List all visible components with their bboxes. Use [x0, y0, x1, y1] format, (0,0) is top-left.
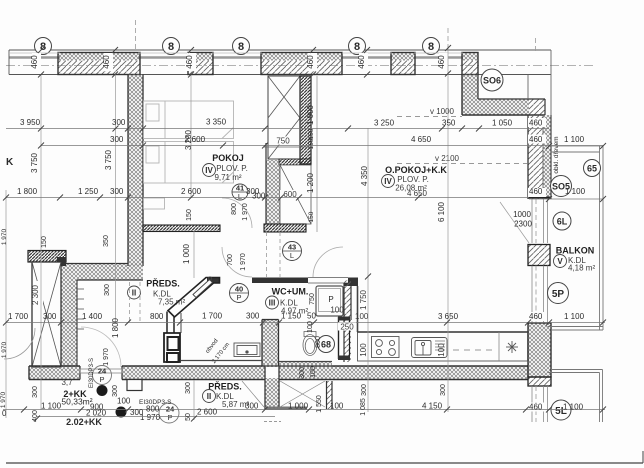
room label PREDS II 7.35: [128, 278, 186, 307]
wire top outer wall line: [9, 49, 551, 51]
wall pier P1: [58, 53, 140, 75]
svg-text:300: 300: [110, 135, 124, 144]
grid line C x191: [190, 75, 192, 199]
washer P box: [316, 286, 344, 316]
svg-text:BALKON: BALKON: [556, 246, 595, 256]
grid circle 8 a: [35, 38, 52, 55]
svg-text:L: L: [238, 192, 242, 201]
wire top inner wall line: [9, 74, 551, 76]
svg-text:8: 8: [354, 41, 360, 53]
room label O.POKOJ+K.K: [382, 165, 448, 198]
v1000 parapet dashed: [397, 107, 462, 117]
grid circle 8 e: [423, 38, 440, 55]
dash axis above left wall: [135, 20, 137, 50]
floor face line WC / thicker wall segment: [279, 362, 333, 367]
svg-text:1 970: 1 970: [1, 341, 8, 358]
svg-text:EI30DP3-S: EI30DP3-S: [139, 399, 172, 406]
room label WC+UM: [266, 287, 309, 316]
circle 40 P door WC: [230, 284, 249, 303]
svg-text:65: 65: [587, 164, 597, 174]
left window jamb: [8, 50, 10, 75]
hatched block right at kitchen: [528, 323, 551, 386]
svg-text:300: 300: [299, 367, 306, 379]
window strip right mid: [532, 266, 548, 324]
svg-text:750: 750: [309, 293, 316, 305]
svg-text:6L: 6L: [557, 217, 568, 227]
grid line B x115: [115, 75, 117, 324]
svg-text:2 600: 2 600: [197, 408, 218, 417]
svg-text:1 700: 1 700: [8, 312, 29, 321]
dimension 2300 shaft: [33, 281, 43, 309]
outer corner boundary right: [550, 50, 552, 152]
balcony slab diagonal: [500, 202, 529, 243]
svg-text:1 970: 1 970: [140, 413, 161, 422]
door leaf dot lower: [116, 407, 127, 418]
wall strip right of washer: [344, 280, 351, 362]
svg-text:4 650: 4 650: [411, 135, 432, 144]
balcony door SO5 opening: [532, 199, 548, 243]
v2100 lintel dashed: [397, 154, 527, 164]
left wall of POKOJ (crosshatch): [128, 75, 143, 267]
svg-text:v 2100: v 2100: [435, 154, 460, 163]
circle 65: [584, 160, 601, 177]
svg-text:4 650: 4 650: [407, 189, 428, 198]
svg-text:IV: IV: [384, 177, 392, 186]
dashed door projection PREDS: [130, 282, 141, 322]
svg-text:K: K: [6, 157, 14, 168]
svg-text:P: P: [328, 295, 333, 304]
svg-text:1 970: 1 970: [0, 391, 7, 408]
svg-text:8: 8: [428, 41, 434, 53]
svg-text:460: 460: [357, 55, 366, 69]
svg-text:460: 460: [529, 187, 543, 196]
wall pier P5 corner: [462, 53, 478, 75]
lower truss bay with diagonal: [280, 165, 311, 224]
svg-text:1 200: 1 200: [306, 172, 315, 193]
door arc neighbour left: [4, 328, 35, 359]
svg-text:300: 300: [361, 384, 368, 396]
svg-text:150: 150: [308, 138, 315, 149]
wall stub right of entrance: [327, 381, 333, 409]
svg-text:460: 460: [30, 55, 39, 69]
page corner tick right: [642, 451, 644, 463]
svg-text:1 550: 1 550: [316, 395, 323, 413]
circle 43 door O.POKOJ: [283, 242, 302, 261]
door arc entry hall: [81, 327, 121, 367]
truss column upper box: [268, 76, 300, 159]
svg-text:150: 150: [308, 128, 315, 139]
door leaf 40 on diagonal: [193, 277, 213, 298]
svg-text:IV: IV: [205, 166, 213, 175]
washbasin: [234, 343, 260, 357]
balcony 65 outline: [548, 146, 604, 330]
svg-text:P: P: [236, 293, 241, 302]
svg-text:II: II: [132, 289, 136, 298]
svg-text:460: 460: [529, 119, 543, 128]
door opening left (900 door) leaf: [80, 369, 122, 373]
svg-text:POKOJ: POKOJ: [212, 153, 244, 163]
door arc POKOJ: [222, 198, 252, 228]
kitchen counter: [358, 332, 528, 361]
partition bar bottom of truss column: [264, 224, 306, 232]
truss middle dark bar: [279, 159, 311, 165]
door arc WC top: [313, 247, 343, 277]
svg-text:150: 150: [41, 236, 48, 248]
window inner thin line: [9, 52, 463, 54]
svg-text:PŘEDS.: PŘEDS.: [208, 381, 242, 392]
kitchen side wall: [357, 286, 359, 332]
threshold dashes entrance: [264, 421, 281, 423]
dimension row y322: [6, 312, 605, 323]
svg-text:8: 8: [168, 41, 174, 53]
dimension row y197: [6, 187, 586, 201]
hatched block below SO5: [528, 245, 550, 266]
dash axis top right corner: [535, 38, 537, 52]
grid circle 8 b: [163, 38, 180, 55]
svg-text:100: 100: [330, 402, 344, 411]
svg-text:460: 460: [529, 135, 543, 144]
svg-text:1 050: 1 050: [492, 119, 513, 128]
dishwasher dashed: [453, 349, 495, 351]
svg-text:II: II: [207, 392, 211, 401]
svg-text:1 150: 1 150: [281, 312, 302, 321]
dimension row y128: [6, 118, 549, 129]
balcony 5L outline bottom right: [548, 370, 603, 423]
wall pier P4: [391, 53, 415, 75]
bed 2: [144, 142, 234, 184]
corner wall band above PREDS: [61, 264, 143, 281]
svg-text:800: 800: [150, 312, 164, 321]
wall pier P2: [188, 53, 213, 75]
svg-text:3 200: 3 200: [184, 129, 193, 150]
svg-text:8: 8: [238, 41, 244, 53]
svg-text:1 000: 1 000: [306, 104, 315, 125]
svg-text:1 000: 1 000: [288, 402, 309, 411]
sink: [412, 338, 448, 358]
dimension row y145: [41, 135, 603, 146]
svg-text:100: 100: [330, 306, 344, 315]
svg-text:460: 460: [102, 55, 111, 69]
grid circle 8 c: [233, 38, 250, 55]
door recess notch near 24P: [127, 380, 142, 391]
axis dash in SO5 opening: [535, 199, 537, 243]
svg-text:50: 50: [307, 312, 316, 321]
shaft boxes beside washbasin: [164, 333, 180, 362]
svg-text:1 400: 1 400: [82, 312, 103, 321]
svg-text:1 100: 1 100: [564, 135, 585, 144]
halo 750: [272, 137, 294, 145]
svg-text:2 300: 2 300: [31, 284, 40, 305]
dimension 460 labels on top wall: [30, 55, 446, 69]
svg-text:1 700: 1 700: [202, 312, 223, 321]
svg-text:150: 150: [186, 209, 193, 221]
grid line D x368: [367, 128, 369, 412]
vertical wall piece below diagonal: [167, 312, 174, 334]
svg-text:1 970: 1 970: [1, 228, 8, 245]
bottom page border line: [6, 462, 643, 464]
svg-text:2300: 2300: [514, 220, 532, 229]
svg-text:5P: 5P: [552, 289, 565, 300]
svg-text:460: 460: [437, 55, 446, 69]
right wall segment upper (obkl drevem): [528, 115, 551, 199]
circle SO5: [551, 176, 572, 197]
wardrobe small rect POKOJ: [144, 198, 165, 209]
svg-text:300: 300: [112, 385, 119, 397]
svg-text:1 800: 1 800: [111, 317, 120, 338]
grid line PREDS x194: [193, 231, 195, 278]
vertical texts left side: [30, 149, 192, 421]
halo 600: [280, 190, 300, 198]
wall line above shaft boxes: [180, 313, 182, 333]
svg-text:3,7: 3,7: [61, 378, 73, 387]
svg-text:68: 68: [321, 340, 331, 350]
svg-text:obkl. dřevem: obkl. dřevem: [553, 136, 560, 173]
svg-text:P: P: [99, 375, 104, 384]
svg-text:1 750: 1 750: [359, 289, 368, 310]
svg-text:800: 800: [315, 336, 322, 348]
corridor diagonals below: [242, 381, 325, 407]
circle 68: [318, 336, 335, 353]
svg-text:3 650: 3 650: [438, 312, 459, 321]
svg-text:P: P: [167, 413, 172, 422]
svg-text:WC+UM.: WC+UM.: [272, 287, 309, 297]
circle 6L: [553, 212, 571, 230]
svg-text:350: 350: [103, 235, 110, 247]
room label PREDS II 5.87: [203, 381, 250, 410]
dimension 750 inside truss: [264, 137, 311, 148]
svg-text:1 100: 1 100: [565, 187, 586, 196]
vertical texts POKOJ area: [182, 129, 249, 270]
grid line A x41: [40, 75, 42, 411]
svg-text:0: 0: [2, 409, 7, 418]
room label POKOJ: [203, 153, 248, 182]
circle 24 P upper door: [93, 366, 112, 385]
window strip right bottom: [532, 386, 548, 422]
svg-text:PLOV. P.: PLOV. P.: [216, 164, 248, 173]
svg-text:1 250: 1 250: [78, 187, 99, 196]
svg-text:3 350: 3 350: [206, 118, 227, 127]
svg-text:SO6: SO6: [483, 76, 501, 86]
grid line E x448: [447, 46, 449, 412]
svg-text:1 085: 1 085: [360, 398, 367, 416]
svg-text:50,33m²: 50,33m²: [61, 397, 92, 407]
dimension row y418: [37, 416, 275, 418]
svg-text:300: 300: [185, 382, 192, 394]
stove: [372, 337, 400, 358]
wall between UM and WC: [262, 320, 279, 367]
texts 1000 2300: [513, 210, 532, 229]
svg-text:800: 800: [231, 203, 238, 215]
left wall of PREDS (crosshatch strip): [61, 280, 77, 367]
circle 5P: [548, 283, 569, 304]
circle 24 P lower door: [159, 403, 179, 423]
dimension line vertical right of truss: [316, 76, 318, 232]
vertical texts O.POKOJ area: [299, 165, 447, 415]
svg-text:50: 50: [185, 413, 192, 421]
crosshatch strip mid column: [266, 143, 280, 224]
svg-text:150: 150: [308, 211, 315, 222]
svg-text:460: 460: [306, 55, 315, 69]
svg-text:1 970: 1 970: [242, 203, 249, 221]
svg-text:1 100: 1 100: [41, 402, 62, 411]
svg-text:300: 300: [110, 187, 124, 196]
dash axis above grid d: [447, 28, 449, 49]
svg-text:300: 300: [245, 402, 259, 411]
wall axis dash-dot line: [6, 65, 593, 67]
svg-text:3 950: 3 950: [20, 118, 41, 127]
dim texts truss column: [306, 104, 315, 222]
dark hatched narrow bar right of truss: [300, 76, 311, 164]
svg-text:3 750: 3 750: [104, 149, 113, 170]
SO6 window corner wall vertical part: [462, 75, 478, 116]
svg-text:EI30DP3-S: EI30DP3-S: [89, 358, 95, 388]
svg-text:L: L: [290, 251, 294, 260]
svg-text:300: 300: [112, 118, 126, 127]
WC top wall opening lines: [308, 278, 348, 284]
svg-text:460: 460: [185, 55, 194, 69]
svg-text:100: 100: [359, 343, 368, 357]
svg-text:V: V: [557, 257, 563, 266]
svg-text:250: 250: [340, 323, 354, 332]
svg-text:1 970: 1 970: [103, 348, 110, 366]
text 250: [338, 323, 356, 331]
svg-text:700: 700: [227, 254, 234, 266]
door leaf dot upper: [97, 385, 108, 396]
svg-text:750: 750: [276, 137, 290, 146]
svg-text:4,18 m²: 4,18 m²: [568, 264, 595, 273]
dashed door projection WC left: [267, 232, 281, 277]
svg-text:2.02+KK: 2.02+KK: [66, 417, 102, 427]
bed 1: [144, 101, 234, 139]
svg-text:6 100: 6 100: [437, 201, 446, 222]
svg-text:100: 100: [355, 312, 369, 321]
window glazing band top-left: [9, 56, 463, 59]
svg-text:300: 300: [43, 312, 57, 321]
svg-text:100: 100: [307, 321, 314, 333]
svg-text:8: 8: [40, 41, 46, 53]
SO6 window corner wall horizontal part: [462, 99, 545, 115]
svg-text:v 1000: v 1000: [430, 107, 455, 116]
svg-text:9,71 m²: 9,71 m²: [214, 173, 241, 182]
partition bar POKOJ/PREDS: [143, 225, 220, 232]
svg-text:300: 300: [440, 384, 447, 396]
diagonal hatched beam left: [28, 251, 66, 267]
svg-text:1 970: 1 970: [240, 253, 247, 271]
room label BALKON: [554, 246, 596, 273]
door arc PREDS below bar: [222, 247, 252, 277]
svg-text:O.POKOJ+K.K: O.POKOJ+K.K: [385, 165, 447, 175]
apartment label 2+KK: [61, 378, 92, 407]
svg-text:100: 100: [117, 397, 131, 406]
halos for right wall 460 labels: [528, 118, 546, 412]
ladder ticks on PREDS wall: [77, 289, 84, 329]
toilet: [303, 332, 317, 356]
circle SO6: [481, 69, 503, 91]
entrance door recess column: [265, 367, 307, 411]
svg-text:300: 300: [32, 386, 39, 398]
dim line balcony y199: [529, 198, 603, 200]
obvod note rotated: [205, 338, 231, 365]
diagonal entry wall: [168, 278, 220, 318]
boiler star symbol: [506, 341, 518, 353]
svg-text:1 000: 1 000: [182, 243, 191, 264]
inner face line below SO6: [527, 75, 529, 100]
svg-text:III: III: [269, 299, 276, 308]
WC top wall left stub: [207, 278, 220, 284]
left margin rotated texts: [0, 228, 8, 408]
svg-text:300: 300: [104, 284, 111, 296]
svg-text:4 350: 4 350: [360, 165, 369, 186]
floor face line UM: [181, 360, 262, 362]
svg-text:300: 300: [246, 312, 260, 321]
duct channel below washer: [338, 317, 350, 361]
dimension row y409: [2, 397, 605, 423]
circle 5L: [551, 400, 571, 420]
circle 41 door POKOJ: [232, 184, 248, 202]
grid line F left x6: [5, 190, 7, 418]
svg-text:1 100: 1 100: [563, 403, 584, 412]
grid circle 8 d: [349, 38, 366, 55]
WC top wall left part: [252, 278, 308, 284]
svg-text:460: 460: [529, 403, 543, 412]
shaft with X bracing left: [32, 262, 61, 367]
svg-text:PŘEDS.: PŘEDS.: [146, 278, 180, 289]
bottom main wall band: [29, 366, 528, 380]
tick marks dimension crossings: [3, 45, 606, 422]
wall pier P3: [261, 53, 342, 75]
dim 1100 line balcony top: [549, 145, 603, 147]
svg-text:4 150: 4 150: [422, 402, 443, 411]
svg-text:100: 100: [437, 343, 446, 357]
svg-text:1000: 1000: [513, 210, 531, 219]
svg-text:1 800: 1 800: [17, 187, 38, 196]
svg-text:1 100: 1 100: [564, 312, 585, 321]
svg-text:3 750: 3 750: [30, 152, 39, 173]
svg-text:100: 100: [310, 366, 317, 378]
svg-text:3 250: 3 250: [374, 119, 395, 128]
halos for 460 labels: [32, 53, 448, 71]
WC top wall right corner: [344, 278, 358, 287]
svg-text:2 600: 2 600: [181, 187, 202, 196]
